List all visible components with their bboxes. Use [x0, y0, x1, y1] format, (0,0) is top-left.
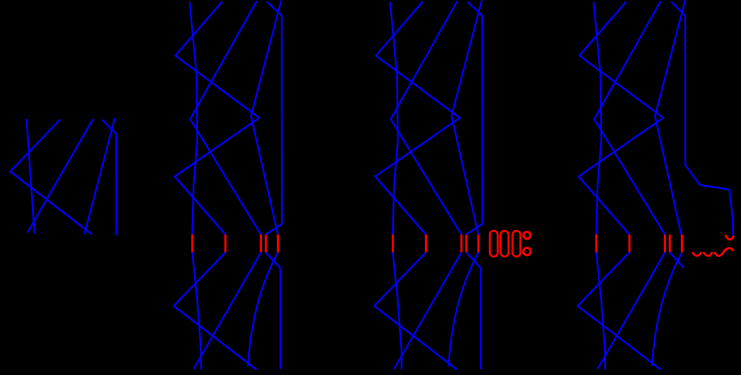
D chain 5 direct to C-O [655, 0, 685, 234]
A chain 3 diagonal [84, 118, 114, 234]
molecule A (small fragment, left) [10, 118, 116, 235]
A chain 4 diagonal [28, 119, 94, 232]
C red small circle top [523, 232, 530, 239]
B backbone chains [174, 1, 280, 370]
A chain 1 near-vertical [27, 119, 35, 234]
molecule C (triglyceride 2) [374, 0, 482, 369]
C ester head [452, 0, 483, 369]
D chain 4 rerouted to right [671, 2, 733, 236]
D red squiggle upper bowl [725, 235, 734, 240]
B ester head [251, 0, 282, 369]
A chain 2 V shape [10, 119, 92, 234]
C red O glyph 3 [513, 231, 521, 257]
C red small circle bottom [523, 248, 530, 255]
molecule B (triglyceride 1) [174, 0, 282, 369]
D backbone chains [578, 1, 684, 370]
C red O glyph 1 [490, 231, 498, 257]
C red O glyph 2 [501, 231, 509, 257]
molecule D (triglyceride 3) [578, 0, 734, 369]
D red squiggle lower wavy line [692, 252, 701, 256]
C backbone chains [374, 1, 480, 370]
A chain 5 peak and vertical [102, 120, 116, 236]
